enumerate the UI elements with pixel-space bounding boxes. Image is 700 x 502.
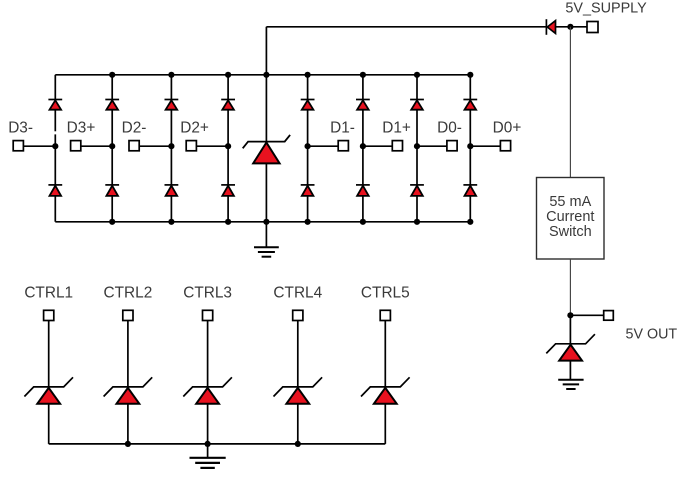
junction top rail D3+ [109, 72, 115, 78]
diode upper D1+ triangle [357, 100, 369, 109]
junction bottom rail D2- [168, 219, 174, 225]
diode upper D2- triangle [166, 100, 178, 109]
wire column CTRL4 upper [297, 321, 299, 388]
terminal pad D3- [13, 141, 23, 151]
wire column CTRL1 lower [48, 404, 50, 444]
wire column CTRL3 lower [207, 404, 209, 444]
wire 5V OUT ground stem [569, 360, 571, 380]
wire ground stem center [265, 222, 267, 247]
wire terminal D2- [139, 145, 172, 147]
diode lower D3- triangle [50, 186, 62, 196]
diode D6 cathode bar [545, 19, 547, 35]
junction CTRL rail CTRL2 [125, 441, 131, 447]
diode lower D2- triangle [166, 186, 178, 196]
svg-text:CTRL5: CTRL5 [361, 284, 410, 301]
svg-text:CTRL1: CTRL1 [24, 284, 73, 301]
TVS zener CTRL4 triangle [286, 388, 309, 404]
terminal pad 5V_SUPPLY [587, 22, 598, 33]
diode lower D1+ cathode bar [356, 184, 370, 186]
svg-text:Switch: Switch [549, 224, 592, 240]
wire column D2- [170, 75, 172, 222]
TVS zener D5 bar [243, 135, 290, 148]
wire current switch to 5V OUT [569, 259, 571, 315]
junction top rail D0- [414, 72, 420, 78]
TVS zener CTRL2 triangle [117, 388, 140, 404]
wire terminal D3- [23, 145, 56, 147]
wire column D0+ [469, 75, 471, 222]
svg-text:CTRL2: CTRL2 [104, 284, 153, 301]
svg-text:CTRL4: CTRL4 [273, 284, 322, 301]
diode lower D1- cathode bar [301, 184, 315, 186]
terminal pad CTRL4 [293, 310, 303, 320]
wire 5V supply feed [266, 26, 592, 28]
terminal pad D2- [129, 141, 139, 151]
junction top rail D1+ [360, 72, 366, 78]
svg-text:CTRL3: CTRL3 [183, 284, 232, 301]
ground 5V OUT [558, 379, 583, 381]
TVS zener CTRL5 bar [361, 377, 410, 396]
diode upper D3+ triangle [106, 100, 118, 109]
junction node D0- [414, 143, 420, 149]
svg-text:D2+: D2+ [180, 119, 209, 136]
junction node D0+ [467, 143, 473, 149]
terminal pad D0- [447, 141, 457, 151]
wire column CTRL3 upper [207, 321, 209, 388]
diode upper D2- cathode bar [165, 99, 179, 101]
current switch U1 box [537, 178, 605, 260]
junction bottom rail D3+ [109, 219, 115, 225]
wire 5V OUT stub [570, 314, 604, 316]
TVS zener CTRL3 triangle [196, 388, 219, 404]
diode upper D0+ triangle [465, 100, 477, 109]
junction node D3- [52, 143, 58, 149]
wire terminal D3+ [80, 145, 112, 147]
diode upper D3- cathode bar [48, 99, 62, 101]
svg-text:Current: Current [546, 209, 594, 225]
svg-text:D3+: D3+ [67, 119, 96, 136]
wire CTRL ground rail [49, 443, 386, 445]
wire terminal D0- [417, 145, 448, 147]
diode upper D1- triangle [302, 100, 314, 109]
junction CTRL rail CTRL3 [205, 441, 211, 447]
wire 5V OUT zener lead [569, 315, 571, 344]
wire terminal D1+ [363, 145, 393, 147]
wire column CTRL5 upper [384, 321, 386, 388]
wire column D3+ [111, 75, 113, 222]
svg-text:D3-: D3- [8, 119, 33, 136]
wire bottom rail [55, 221, 470, 223]
junction node D2+ [225, 143, 231, 149]
diode lower D0- triangle [411, 186, 423, 196]
TVS zener D5 triangle [253, 143, 279, 164]
junction node D1- [305, 143, 311, 149]
diode lower D3- cathode bar [48, 184, 62, 186]
diode lower D0+ cathode bar [463, 184, 477, 186]
TVS zener D7 triangle [559, 345, 582, 361]
diode upper D1+ cathode bar [356, 99, 370, 101]
diode lower D2+ triangle [222, 186, 234, 196]
TVS zener CTRL3 bar [183, 377, 232, 396]
terminal pad CTRL5 [380, 310, 390, 320]
diode upper D2+ triangle [222, 100, 234, 109]
wire supply to current switch [569, 27, 571, 178]
junction node 5V_SUPPLY [567, 24, 573, 30]
diode lower D2- cathode bar [165, 184, 179, 186]
diode lower D2+ cathode bar [221, 184, 235, 186]
junction node 5V OUT [567, 312, 573, 318]
terminal pad D3+ [71, 141, 81, 151]
junction bottom rail D0+ [467, 219, 473, 225]
wire column D0- [416, 75, 418, 222]
diode lower D0+ triangle [465, 186, 477, 196]
diode upper D1- cathode bar [301, 99, 315, 101]
junction node D3+ [109, 143, 115, 149]
TVS zener CTRL1 bar [24, 377, 73, 396]
diode lower D1- triangle [302, 186, 314, 196]
junction top rail D1- [305, 72, 311, 78]
junction bottom rail center [263, 219, 269, 225]
svg-text:D1+: D1+ [382, 119, 411, 136]
diode upper D3+ cathode bar [105, 99, 119, 101]
junction bottom rail D1+ [360, 219, 366, 225]
junction bottom rail D1- [305, 219, 311, 225]
diode lower D0- cathode bar [410, 184, 424, 186]
junction CTRL rail CTRL4 [295, 441, 301, 447]
terminal pad 5V OUT [604, 311, 614, 321]
junction node D2- [168, 143, 174, 149]
TVS zener CTRL4 bar [274, 377, 323, 396]
svg-text:55 mA: 55 mA [549, 194, 591, 210]
terminal pad CTRL3 [203, 310, 213, 320]
svg-text:D0-: D0- [437, 119, 462, 136]
wire CTRL ground stem [207, 444, 209, 458]
wire column CTRL2 upper [127, 321, 129, 388]
wire column CTRL4 lower [297, 404, 299, 444]
wire column D3- [54, 75, 56, 132]
diode lower D1+ triangle [357, 186, 369, 196]
TVS zener D7 bar [546, 334, 595, 353]
diode upper D0- triangle [411, 100, 423, 109]
wire column D1+ [362, 75, 364, 222]
wire center column [265, 27, 267, 222]
wire terminal D2+ [196, 145, 228, 147]
terminal pad D0+ [500, 141, 510, 151]
TVS zener CTRL1 triangle [37, 388, 60, 404]
diode upper D0+ cathode bar [463, 99, 477, 101]
wire column CTRL5 lower [384, 404, 386, 444]
terminal pad D1+ [392, 141, 402, 151]
ground center [254, 246, 279, 248]
diode upper D0- cathode bar [410, 99, 424, 101]
terminal pad D1- [338, 141, 348, 151]
svg-text:D1-: D1- [330, 119, 355, 136]
terminal pad CTRL2 [123, 310, 133, 320]
junction top rail D2- [168, 72, 174, 78]
diode upper D3- triangle [50, 100, 62, 109]
svg-text:5V_SUPPLY: 5V_SUPPLY [565, 1, 647, 17]
svg-text:D2-: D2- [122, 119, 147, 136]
TVS zener CTRL2 bar [104, 377, 153, 396]
terminal pad CTRL1 [44, 310, 54, 320]
junction top rail D2+ [225, 72, 231, 78]
svg-text:D0+: D0+ [493, 119, 522, 136]
diode lower D3+ triangle [106, 186, 118, 196]
junction top rail center [263, 72, 269, 78]
wire top rail [55, 74, 470, 76]
wire terminal D0+ [470, 145, 501, 147]
wire column D1- [307, 75, 309, 222]
junction top rail D0+ [467, 72, 473, 78]
ground CTRL [190, 457, 226, 459]
diode lower D3+ cathode bar [105, 184, 119, 186]
wire column CTRL1 upper [48, 321, 50, 388]
svg-text:5V OUT: 5V OUT [626, 327, 678, 343]
junction node D1+ [360, 143, 366, 149]
wire terminal D1- [308, 145, 339, 147]
terminal pad D2+ [186, 141, 196, 151]
junction bottom rail D2+ [225, 219, 231, 225]
diode upper D2+ cathode bar [221, 99, 235, 101]
wire column CTRL2 lower [127, 404, 129, 444]
TVS zener CTRL5 triangle [374, 388, 397, 404]
wire column D2+ [227, 75, 229, 222]
diode D6 triangle [547, 21, 555, 34]
junction bottom rail D0- [414, 219, 420, 225]
